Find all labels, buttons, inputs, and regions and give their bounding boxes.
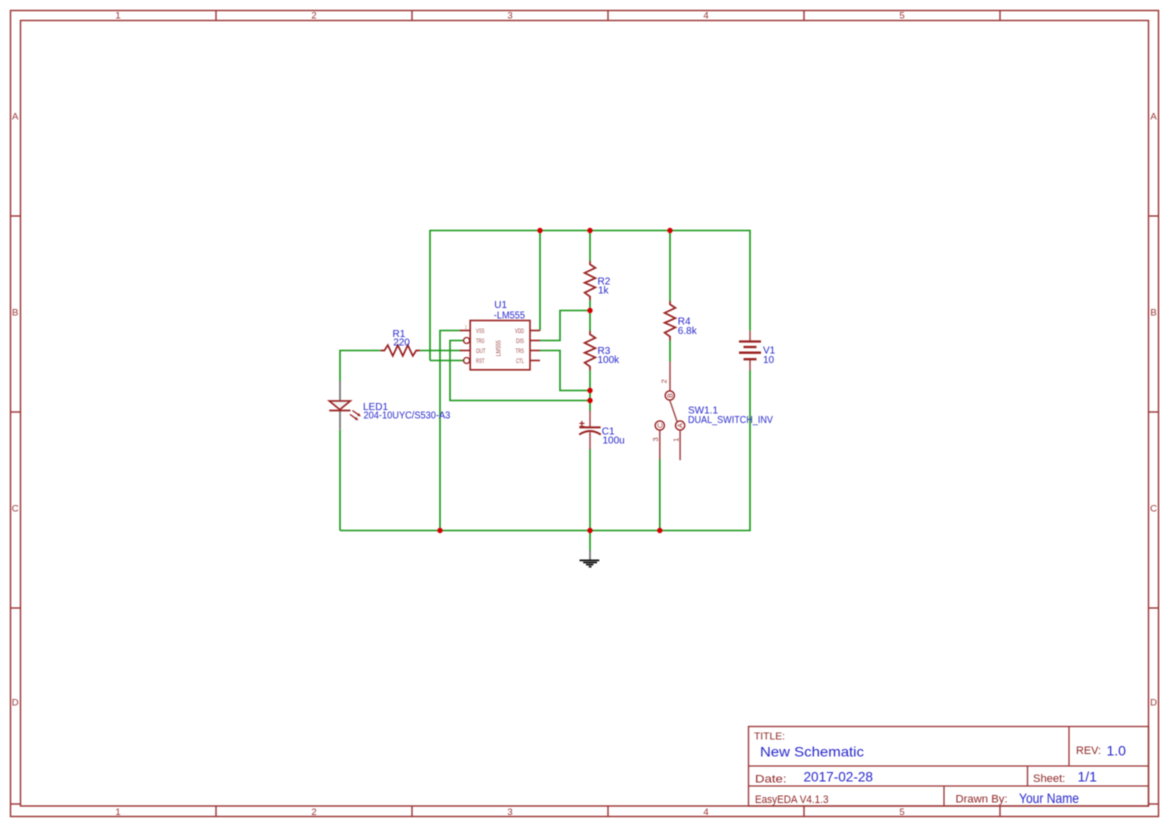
svg-text:DUAL_SWITCH_INV: DUAL_SWITCH_INV (688, 415, 773, 426)
wire VDD riser (539, 231, 541, 331)
svg-text:D: D (1150, 697, 1157, 708)
svg-text:New Schematic: New Schematic (760, 744, 864, 760)
svg-text:TRG: TRG (476, 339, 485, 345)
switch SW1.1 (655, 362, 685, 461)
U1 RST inversion bubble (464, 358, 470, 364)
wire TRG to cap node (450, 341, 590, 401)
wire top rail + left drop to RST (430, 231, 750, 361)
svg-text:1: 1 (115, 11, 120, 22)
svg-text:C: C (1150, 503, 1157, 514)
svg-text:10: 10 (763, 355, 775, 366)
IC U1 LM555 box (470, 321, 530, 370)
junction VDD riser / top rail (537, 228, 542, 233)
svg-text:C: C (12, 503, 19, 514)
svg-text:-LM555: -LM555 (494, 310, 526, 321)
junction R3 bottom / TRS node (587, 388, 592, 393)
wire VSS to bottom rail (440, 331, 461, 531)
svg-text:1: 1 (115, 807, 120, 818)
component labels (363, 277, 776, 447)
wire DIS to R2 bottom node (540, 311, 590, 341)
wire R4 column (669, 231, 671, 362)
svg-text:100u: 100u (603, 436, 625, 447)
svg-text:REV:: REV: (1076, 745, 1101, 757)
svg-text:RST: RST (476, 359, 485, 365)
svg-text:1: 1 (465, 325, 468, 331)
resistor R4 (665, 301, 676, 340)
svg-text:B: B (667, 393, 674, 398)
svg-text:1/1: 1/1 (1078, 769, 1098, 785)
junction R2 bottom / DIS node (587, 308, 592, 313)
svg-text:Date:: Date: (755, 774, 787, 786)
svg-text:6.8k: 6.8k (678, 326, 698, 337)
resistor R2 (585, 261, 596, 300)
svg-text:EasyEDA V4.1.3: EasyEDA V4.1.3 (755, 794, 829, 806)
svg-text:5: 5 (899, 11, 904, 22)
svg-text:2: 2 (660, 379, 669, 383)
svg-text:4: 4 (703, 807, 708, 818)
wire bottom rail (340, 370, 750, 530)
svg-text:LM555: LM555 (497, 340, 503, 357)
svg-text:Sheet:: Sheet: (1033, 773, 1065, 785)
junction VSS wire / bottom rail (437, 528, 442, 533)
svg-text:2: 2 (311, 11, 316, 22)
svg-text:VDD: VDD (515, 329, 524, 335)
wire OUT to R1 (420, 350, 461, 352)
svg-text:2017-02-28: 2017-02-28 (804, 769, 874, 785)
svg-text:OUT: OUT (476, 349, 486, 355)
svg-text:Drawn By:: Drawn By: (956, 794, 1008, 806)
svg-text:5: 5 (899, 807, 904, 818)
resistor R1 (381, 345, 420, 356)
junction TRG node / C1 top (587, 398, 592, 403)
svg-text:1: 1 (672, 438, 681, 442)
svg-text:A: A (1150, 111, 1157, 122)
capacitor C1 (579, 411, 601, 449)
svg-text:A: A (12, 111, 19, 122)
U1 pin names (476, 329, 524, 365)
svg-text:3: 3 (507, 11, 512, 22)
svg-text:1k: 1k (598, 285, 610, 296)
svg-text:D: D (12, 697, 19, 708)
svg-text:100k: 100k (598, 355, 621, 366)
junction C1-ground / bottom rail (587, 528, 592, 533)
svg-text:2: 2 (311, 807, 316, 818)
svg-text:204-10UYC/S530-A3: 204-10UYC/S530-A3 (364, 411, 451, 422)
U1 pin stubs (460, 331, 540, 361)
junction R4 top / top rail (667, 228, 672, 233)
svg-text:DIS: DIS (516, 339, 524, 345)
junction R2 top / top rail (587, 228, 592, 233)
junction switch pin3 / bottom rail (657, 528, 662, 533)
wire switch pin3 to rail (659, 459, 661, 531)
TITLE BLOCK (749, 727, 1149, 807)
wire C1 bottom + ground stem (589, 449, 591, 551)
svg-text:B: B (12, 307, 18, 318)
svg-text:1.0: 1.0 (1107, 743, 1127, 759)
wire RST stub (430, 360, 464, 362)
switch pin numbers (651, 379, 681, 442)
wire R1 to LED top (340, 351, 381, 382)
battery V1 (739, 331, 761, 371)
switch terminal letters (657, 393, 684, 428)
svg-text:3: 3 (651, 437, 660, 441)
svg-text:TRS: TRS (516, 349, 525, 355)
wire TRS to R3 bottom node (540, 351, 590, 391)
svg-text:VSS: VSS (476, 329, 485, 335)
wire R2 column (589, 231, 591, 412)
svg-text:220: 220 (393, 338, 410, 349)
svg-text:A: A (678, 423, 685, 428)
svg-text:3: 3 (507, 807, 512, 818)
svg-text:C: C (657, 423, 664, 428)
svg-text:4: 4 (703, 11, 708, 22)
LED LED1 (329, 381, 361, 430)
resistor R3 (585, 331, 596, 370)
svg-text:Your Name: Your Name (1019, 790, 1079, 806)
U1 TRG inversion bubble (464, 338, 470, 344)
svg-text:B: B (1150, 307, 1156, 318)
svg-text:CTL: CTL (516, 359, 524, 365)
wire LED bottom to rail (339, 430, 341, 531)
ground (580, 550, 600, 566)
svg-text:TITLE:: TITLE: (754, 732, 785, 743)
